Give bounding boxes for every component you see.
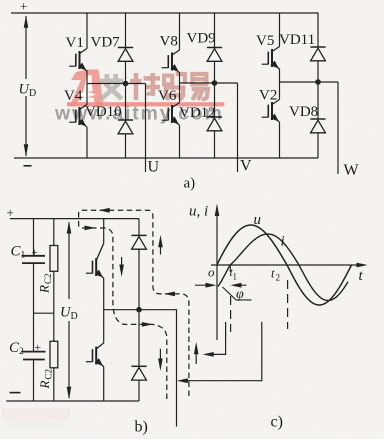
svg-text:u, i: u, i — [189, 204, 208, 220]
svg-text:i: i — [281, 234, 285, 250]
resistor RC2 (lower) — [50, 341, 58, 368]
wire b upper diode top — [138, 219, 140, 236]
watermark CJK characters (blocky approximations) — [100, 73, 208, 100]
svg-text:VD12: VD12 — [179, 105, 216, 121]
svg-text:2: 2 — [19, 347, 24, 357]
wire V8 emitter — [179, 72, 181, 83]
wire b lower diode bottom — [138, 380, 140, 401]
wire V1 emitter to U node — [86, 71, 88, 84]
arrow on dashed path (right, y=324 segment) — [142, 322, 153, 327]
svg-text:a): a) — [184, 176, 196, 192]
wire b upper diode bottom — [138, 249, 140, 310]
wire RC2a top — [53, 219, 55, 246]
wire b top rail — [10, 218, 139, 220]
wire VD10 top — [125, 84, 127, 121]
wire VD8 top — [317, 82, 319, 119]
wire V6 emitter — [179, 125, 181, 158]
svg-text:t: t — [271, 267, 275, 281]
wire V1 collector — [86, 13, 88, 49]
svg-text:C2: C2 — [44, 369, 54, 380]
svg-text:VD7: VD7 — [91, 35, 121, 51]
wire VD11 top — [317, 13, 319, 47]
diode VD10 — [118, 120, 133, 134]
svg-text:D: D — [71, 311, 78, 322]
wire V6 collector — [179, 83, 181, 103]
callout line t1 to b (upper) — [203, 322, 226, 357]
label RC2 (upper, rotated) — [37, 273, 54, 294]
current arrow up (beside dashed riser) — [158, 235, 163, 255]
phase gap arrows (phi) — [195, 283, 247, 288]
watermark red underline — [67, 102, 225, 106]
minus terminal label (a) — [24, 165, 32, 167]
svg-text:+: + — [32, 247, 39, 259]
wire VD10 bottom — [125, 134, 127, 158]
svg-text:U: U — [148, 159, 160, 176]
wire bottom DC rail (-) — [14, 157, 318, 159]
wire leg1 midpoint — [87, 83, 146, 85]
svg-text:V4: V4 — [64, 88, 83, 104]
svg-text:W: W — [344, 162, 360, 179]
diode D (b lower freewheel) — [131, 366, 146, 380]
wire RC2b bottom — [53, 368, 55, 401]
svg-text:+: + — [20, 0, 27, 14]
wire V5 collector — [279, 13, 281, 47]
wire C1 top — [33, 219, 35, 256]
wire VD9 top — [214, 13, 216, 48]
svg-text:1: 1 — [233, 272, 238, 282]
transistor V2 (IGBT) — [262, 100, 280, 123]
resistor RC2 (upper) — [50, 246, 58, 272]
wire RC2 middle — [53, 271, 55, 341]
node leg1 mid node — [123, 81, 129, 87]
current arrow down (beside upper diode) — [119, 257, 124, 277]
wire top DC rail (+) — [11, 12, 319, 14]
svg-text:R: R — [37, 285, 52, 294]
wire VD12 top — [214, 83, 216, 117]
svg-text:V6: V6 — [158, 88, 177, 104]
tick t1 — [229, 266, 231, 272]
wire V4 emitter — [86, 127, 88, 158]
transistor V5 (IGBT) — [262, 47, 280, 70]
svg-text:o: o — [208, 265, 215, 280]
watermark bottom-left remnant — [2, 408, 70, 427]
wire V2 collector — [279, 82, 281, 100]
svg-text:VD8: VD8 — [289, 104, 318, 120]
callout line t2 to b (lower) — [177, 322, 262, 383]
svg-text:V8: V8 — [160, 34, 178, 50]
diode VD8 — [310, 119, 325, 133]
wire b bottom rail — [6, 400, 139, 402]
wire b lower diode top — [138, 310, 140, 367]
wire VD7 to node — [125, 61, 127, 83]
svg-text:R: R — [37, 381, 52, 390]
watermark logo A (aitmy) — [70, 70, 104, 107]
wire VD9 to node — [214, 61, 216, 83]
svg-text:u: u — [254, 212, 262, 228]
wire C2 top — [33, 313, 35, 351]
svg-text:1: 1 — [21, 251, 26, 261]
diode D (b upper freewheel) — [131, 235, 146, 249]
label RC2 (lower, rotated) — [37, 369, 54, 390]
svg-text:D: D — [29, 88, 36, 99]
current arrow down (below b, left of output lead) — [158, 349, 163, 371]
wire b top IGBT collector — [103, 219, 105, 244]
wire output W — [337, 82, 339, 174]
svg-text:φ: φ — [236, 287, 244, 302]
wire VD12 bottom — [214, 131, 216, 158]
arrow on dashed path (left, top segment) — [99, 208, 110, 213]
wire V2 emitter — [279, 122, 281, 158]
svg-text:C2: C2 — [43, 273, 53, 284]
wire leg3 midpoint — [280, 81, 339, 83]
wire cap-res midpoint link — [34, 312, 54, 314]
wire C2 bottom — [33, 360, 35, 402]
transistor V (b upper) (IGBT) — [86, 243, 104, 278]
dashed drop below t2/u-crossing — [287, 280, 289, 329]
wire V5 emitter — [279, 69, 281, 83]
svg-text:V: V — [240, 158, 252, 175]
wire b bottom IGBT emitter — [103, 367, 105, 402]
svg-text:V5: V5 — [256, 33, 274, 49]
svg-text:VD11: VD11 — [279, 32, 315, 48]
wire dashed commutation path (b) — [79, 210, 189, 399]
phi leader line — [223, 287, 252, 300]
transistor V4 (IGBT) — [69, 105, 87, 128]
transistor V (b lower) (IGBT) — [86, 343, 104, 367]
wire b top IGBT emitter — [103, 278, 105, 310]
transistor V8 (IGBT) — [162, 50, 180, 73]
node leg3 mid node — [315, 79, 321, 85]
diode VD7 — [118, 48, 133, 62]
curve u — [217, 225, 352, 305]
minus label (b) — [10, 392, 21, 394]
svg-text:c): c) — [271, 414, 283, 431]
arrow on dashed path (right, y=228 segment) — [85, 226, 96, 231]
svg-text:+: + — [35, 342, 42, 354]
wire b mid output lead — [104, 310, 177, 427]
wire V4 collector — [86, 84, 88, 105]
svg-text:V1: V1 — [66, 35, 84, 51]
current arrow up (below b, right of output lead) — [194, 342, 199, 364]
svg-text:2: 2 — [276, 273, 281, 283]
diode VD9 — [207, 48, 222, 62]
voltage arrow UD (b) — [67, 221, 72, 399]
voltage arrow UD (a) — [24, 15, 29, 157]
svg-text:VD10: VD10 — [85, 104, 122, 120]
diode VD12 — [207, 117, 222, 131]
diode VD11 — [310, 47, 325, 61]
curve i — [218, 234, 348, 301]
arrow on dashed path (left, y=294 segment) — [164, 292, 175, 297]
dashed drop below t1 — [230, 296, 232, 332]
wire output V — [237, 83, 239, 172]
capacitor C1 — [22, 256, 46, 263]
svg-text:VD9: VD9 — [187, 31, 216, 47]
wire output U — [145, 84, 147, 173]
svg-text:b): b) — [135, 419, 148, 436]
wire b bottom IGBT collector — [103, 310, 105, 343]
wire VD11 to node — [317, 61, 319, 82]
wire VD7 top — [125, 13, 127, 48]
transistor V6 (IGBT) — [162, 103, 180, 126]
axis x (t) — [211, 263, 368, 268]
svg-text:V2: V2 — [259, 88, 277, 104]
wire VD8 bottom — [317, 133, 319, 158]
capacitor C2 — [22, 352, 46, 360]
wire C1 bottom — [33, 263, 35, 313]
node leg2 mid node — [212, 80, 218, 86]
wire leg2 midpoint — [180, 82, 238, 84]
transistor V1 (IGBT) — [69, 49, 87, 72]
axis y (u,i) — [215, 204, 220, 341]
wire V8 collector — [179, 13, 181, 50]
node b midpoint node — [136, 307, 142, 313]
svg-text:+: + — [7, 205, 14, 220]
